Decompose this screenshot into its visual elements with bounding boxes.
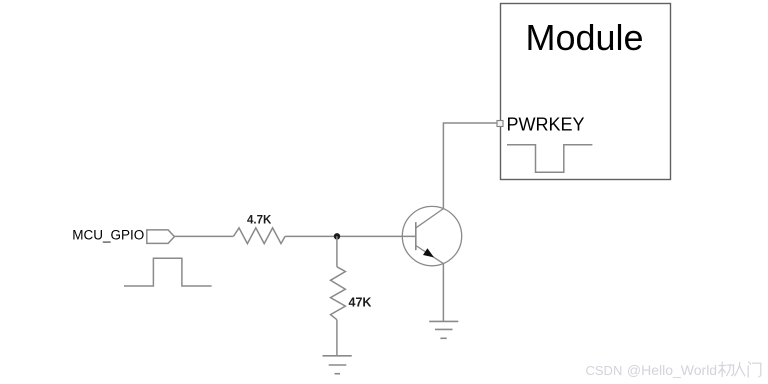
svg-text:MCU_GPIO: MCU_GPIO [72, 227, 144, 242]
svg-text:CSDN: CSDN [586, 363, 623, 378]
svg-text:47K: 47K [349, 296, 372, 310]
svg-text:Module: Module [526, 17, 644, 58]
svg-text:@Hello_World: @Hello_World [627, 362, 717, 378]
svg-text:4.7K: 4.7K [247, 215, 272, 227]
svg-text:PWRKEY: PWRKEY [507, 115, 585, 135]
